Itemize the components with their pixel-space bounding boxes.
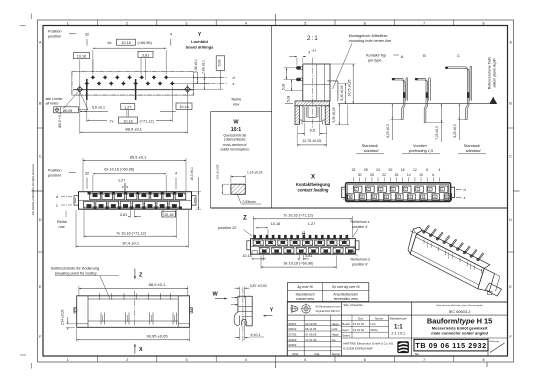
sheet number cell: [488, 338, 505, 356]
svg-text:all holes: all holes: [46, 101, 59, 105]
W area callout 0,93mm2: [237, 194, 261, 205]
svg-text:Blatt/page: Blatt/page: [490, 340, 501, 343]
2:1 right dims 8,35 and 24,75: [330, 64, 356, 125]
svg-text:C: C: [457, 53, 460, 58]
svg-text:8: 8: [483, 358, 485, 362]
svg-text:3: 3: [186, 21, 188, 25]
svg-text:solder terminations:: solder terminations:: [220, 148, 250, 152]
svg-text:20: 20: [388, 168, 392, 172]
svg-text:3,87 ±0,03: 3,87 ±0,03: [250, 284, 267, 288]
svg-text:row: row: [233, 103, 239, 107]
svg-text:5,08: 5,08: [281, 84, 285, 91]
svg-text:Name: Name: [375, 316, 383, 320]
svg-text:6x 10,16 (=60,96): 6x 10,16 (=60,96): [104, 168, 135, 172]
HARTING logo: [397, 341, 409, 353]
svg-text:24,75 ±0,05: 24,75 ±0,05: [348, 79, 352, 96]
svg-text:Witze: Witze: [371, 328, 379, 332]
svg-text:Y: Y: [270, 307, 274, 313]
breaking point notch ticks: [100, 291, 177, 327]
Z view dims below: [242, 254, 336, 269]
3D view front face ribs: [424, 239, 482, 273]
svg-text:26: 26: [370, 173, 374, 177]
svg-text:D-32339 ESPELKAMP: D-32339 ESPELKAMP: [343, 347, 372, 351]
svg-text:4: 4: [175, 172, 177, 176]
2:1 upper housing outline: [285, 64, 338, 101]
svg-text:6: 6: [364, 358, 366, 362]
svg-text:22.09.08: 22.09.08: [305, 322, 317, 326]
svg-text:17.01.06: 17.01.06: [305, 338, 317, 342]
svg-text:X: X: [311, 175, 315, 181]
svg-text:C: C: [39, 155, 42, 159]
svg-text:Tab.: Tab.: [415, 352, 420, 356]
svg-text:d: d: [56, 195, 58, 199]
svg-text:4: 4: [439, 168, 441, 172]
svg-text:87,4 ±0,1: 87,4 ±0,1: [122, 240, 139, 245]
svg-text:88,9 ±0,1: 88,9 ±0,1: [149, 282, 166, 287]
2:1 solder pins left: [296, 66, 303, 81]
svg-text:1: 1: [67, 21, 69, 25]
svg-text:32352: 32352: [288, 343, 296, 347]
svg-text:Maßstab/scale: Maßstab/scale: [390, 316, 407, 320]
svg-text:Position: Position: [48, 30, 62, 34]
svg-text:5: 5: [304, 358, 306, 362]
side view W profile: [231, 288, 252, 343]
svg-text:Kontakt-Typ: Kontakt-Typ: [366, 54, 386, 58]
svg-text:32: 32: [85, 172, 89, 176]
svg-text:16,3 ±0,1: 16,3 ±0,1: [190, 167, 194, 181]
svg-text:A: A: [361, 195, 363, 199]
svg-text:Ge.: Ge.: [332, 338, 337, 342]
svg-text:preleading 1,5: preleading 1,5: [408, 149, 434, 153]
svg-text:D: D: [509, 218, 512, 222]
datum plane line: [285, 97, 497, 104]
view top contact cavities row z: [84, 201, 182, 209]
svg-text:Lochbild: Lochbild: [191, 39, 208, 44]
type designation Bauform H 15: [427, 316, 492, 335]
title block outline: [287, 302, 507, 356]
part number box TB 09 06 115 2932: [414, 339, 488, 356]
svg-text:standard: standard: [364, 149, 380, 153]
scale block: [390, 316, 407, 335]
copyright note rotated left margin: [31, 164, 35, 215]
svg-text:7: 7: [423, 21, 425, 25]
view Y position labels: [47, 30, 172, 46]
view Y boxed dim 10,16 left: [74, 53, 93, 87]
svg-text:7x 10,16 (=71,12): 7x 10,16 (=71,12): [283, 214, 314, 218]
view arrow W: [213, 291, 228, 299]
view Y all holes true position callout: [46, 92, 89, 113]
svg-text:0,8 ±0,025: 0,8 ±0,025: [215, 164, 219, 179]
svg-text:13.10.04: 13.10.04: [353, 328, 365, 332]
view Y boxed dim 3,81: [138, 51, 153, 80]
svg-text:A: A: [373, 195, 375, 199]
svg-text:Nicht tolerierte Maße/dim. ohn: Nicht tolerierte Maße/dim. ohne Toleranz…: [436, 304, 483, 307]
2:1 bottom dims 6,5 and 12,75: [297, 123, 327, 147]
svg-text:6x 10,16 (=60,96): 6x 10,16 (=60,96): [284, 261, 315, 265]
svg-text:termination area: termination area: [334, 297, 358, 301]
svg-text:IEC 60603-2: IEC 60603-2: [449, 309, 471, 314]
svg-text:10,16: 10,16: [77, 55, 87, 59]
view top contact cavities row d: [88, 192, 186, 200]
view Y boxed dim 1,27: [121, 104, 135, 117]
svg-text:d: d: [464, 188, 466, 192]
svg-text:06.11.06: 06.11.06: [305, 327, 316, 331]
view X-Z breaking point title: [51, 266, 119, 299]
2:1 centerline: [311, 58, 313, 129]
svg-text:93,95 ±0,05: 93,95 ±0,05: [146, 333, 168, 338]
svg-text:3,81: 3,81: [305, 254, 312, 258]
svg-text:14: 14: [407, 173, 411, 177]
svg-text:3,81: 3,81: [120, 213, 127, 217]
datum plane depth note rotated: [488, 57, 497, 90]
svg-text:position: position: [47, 35, 61, 39]
Z view dims 10,16 and 1,27: [256, 222, 315, 237]
svg-text:Ag over Ni: Ag over Ni: [296, 285, 313, 289]
svg-text:5: 5: [304, 21, 306, 25]
Z view cavities row z: [253, 240, 349, 246]
svg-text:1,27: 1,27: [308, 222, 315, 226]
svg-text:(=60,96): (=60,96): [138, 41, 153, 45]
X view connector face: [342, 183, 455, 202]
pin depth dims 6,25 7,25 6,25: [386, 104, 466, 142]
2:1 dim 3 +0,4: [289, 49, 317, 66]
svg-text:Bauform/type H 15: Bauform/type H 15: [427, 316, 492, 325]
svg-text:3,81: 3,81: [142, 53, 149, 57]
svg-text:2:1: 2:1: [307, 36, 319, 42]
X contact loading label: [296, 175, 331, 193]
svg-text:5,6 ±0,1: 5,6 ±0,1: [92, 106, 105, 110]
svg-text:8: 8: [483, 21, 485, 25]
svg-text:Dat.: Dat.: [358, 316, 364, 320]
breaking point dim 2,54: [61, 310, 78, 330]
svg-text:contact area: contact area: [296, 297, 314, 301]
manufacturer address: [343, 342, 394, 351]
svg-text:5,08 ±0,1: 5,08 ±0,1: [194, 59, 198, 73]
W cross-section title: [220, 119, 250, 151]
svg-text:Lötanschlüsse:: Lötanschlüsse:: [224, 138, 247, 142]
svg-text:5,35 ±0,05: 5,35 ±0,05: [332, 107, 336, 122]
svg-text:2: 2: [126, 358, 128, 362]
view top position labels: [47, 168, 177, 189]
view top connector body: [74, 192, 196, 210]
svg-text:2:1 10:1: 2:1 10:1: [391, 332, 405, 336]
svg-text:18: 18: [395, 173, 399, 177]
breaking point dim 88,9: [79, 282, 188, 296]
svg-text:07.06.06: 07.06.06: [305, 333, 317, 337]
W dim 0,8: [215, 164, 229, 194]
X view position numbers: [352, 168, 441, 182]
side view W dim 3,87: [235, 284, 267, 298]
svg-text:Dat.: Dat.: [315, 352, 321, 356]
Z view position 32 label: [217, 226, 252, 236]
svg-text:Mod.: Mod.: [292, 352, 299, 356]
pin variant labels: [356, 144, 486, 154]
svg-text:Reihe: Reihe: [232, 98, 242, 102]
view arrow Z: [134, 269, 143, 280]
svg-text:12: 12: [413, 168, 417, 172]
svg-text:Voreiler/: Voreiler/: [413, 144, 428, 148]
2:1 base with hatching: [295, 101, 330, 125]
svg-text:16: 16: [401, 168, 405, 172]
svg-text:datum plane depth: datum plane depth: [493, 58, 497, 87]
svg-text:HARTING Electronics GmbH & Co.: HARTING Electronics GmbH & Co. KG: [343, 342, 394, 346]
svg-text:Standard/: Standard/: [464, 144, 481, 148]
svg-text:10,16: 10,16: [123, 119, 133, 123]
pin-type label: [366, 54, 399, 63]
svg-text:7x 10,16 (=71,12): 7x 10,16 (=71,12): [116, 231, 147, 235]
X view contact cells row d: [353, 186, 448, 192]
svg-text:Steckbereich: Steckbereich: [295, 292, 314, 296]
view top dim 7x 10,16: [84, 210, 177, 238]
svg-text:z: z: [464, 196, 466, 200]
svg-text:10,16: 10,16: [242, 254, 252, 258]
svg-text:1:1: 1:1: [394, 324, 403, 330]
svg-text:A: A: [446, 195, 448, 199]
svg-text:1: 1: [67, 358, 69, 362]
svg-text:Name: Name: [332, 352, 341, 356]
standards cell IEC: [436, 304, 483, 314]
svg-text:6,25 ±0,3: 6,25 ±0,3: [453, 124, 457, 137]
side view W dim 6: [235, 321, 265, 340]
view top dim 3,81 and 10,16 below: [120, 210, 176, 218]
Z view solder pins row: [252, 235, 348, 240]
svg-text:35351: 35351: [288, 322, 296, 326]
view top dim 85,5: [83, 154, 186, 191]
svg-text:Teile, Charachte.: Teile, Charachte.: [343, 303, 363, 307]
svg-text:Bearb.: Bearb.: [342, 322, 351, 326]
svg-text:10: 10: [419, 173, 423, 177]
view Y thick extension bars: [87, 79, 136, 100]
svg-text:32: 32: [352, 168, 356, 172]
svg-text:12,75 ±0,05: 12,75 ±0,05: [302, 139, 321, 143]
Z view dim 7x 10,16: [253, 214, 352, 237]
svg-text:Hage.: Hage.: [332, 322, 340, 326]
breaking point dim 93,95: [77, 329, 190, 342]
section divider lines: [211, 26, 508, 209]
svg-text:7,86 ±0,1: 7,86 ±0,1: [201, 60, 205, 74]
svg-text:Leh.: Leh.: [371, 322, 377, 326]
pin A standard: [392, 78, 408, 120]
view Y board drillings title: [186, 32, 215, 50]
2:1 left dims 5,08: [281, 68, 296, 103]
svg-text:5,08: 5,08: [218, 60, 222, 67]
view Y dim 6x 10,16 =60,96: [93, 39, 166, 74]
svg-text:24: 24: [376, 168, 380, 172]
svg-text:10,16: 10,16: [164, 213, 174, 217]
X view contact cells row z: [347, 194, 452, 200]
svg-text:C: C: [509, 155, 512, 159]
pin C standard long: [445, 66, 472, 119]
X view row labels d z: [456, 188, 466, 200]
svg-text:Sn over Ag over Ni: Sn over Ag over Ni: [332, 285, 360, 289]
view Y mounting holes: [77, 85, 190, 94]
svg-text:Reihe: Reihe: [57, 220, 67, 224]
svg-text:male connector solder angled: male connector solder angled: [431, 331, 488, 336]
Z view connector body: [247, 239, 359, 255]
revision table: [287, 315, 341, 356]
Z view cavities row d: [259, 248, 355, 254]
svg-text:A: A: [410, 195, 412, 199]
svg-text:All Dimensions in mm: All Dimensions in mm: [316, 304, 341, 308]
drawing sheet border frame: [38, 20, 514, 362]
svg-text:Z: Z: [243, 215, 247, 221]
svg-text:W: W: [233, 119, 239, 125]
svg-text:contact loading: contact loading: [298, 187, 329, 192]
svg-text:1,27: 1,27: [124, 106, 131, 110]
svg-text:z: z: [233, 82, 235, 86]
svg-text:Kontaktbelegung: Kontaktbelegung: [296, 182, 331, 187]
svg-text:TB 09 06 115 2932: TB 09 06 115 2932: [415, 341, 486, 350]
view Y hole pattern row d: [91, 75, 169, 80]
svg-text:d: d: [233, 76, 235, 80]
view Y section line through mounting holes: [73, 89, 194, 91]
svg-text:Stand.: Stand.: [342, 334, 351, 338]
svg-text:+0,4: +0,4: [311, 49, 317, 53]
view Y hole diameter callout: [58, 91, 79, 128]
view arrow Y small: [263, 307, 274, 316]
svg-text:(=71,12): (=71,12): [140, 119, 155, 123]
svg-text:position 8: position 8: [351, 262, 367, 266]
3D view pins: [423, 225, 484, 260]
svg-text:z: z: [56, 203, 58, 207]
view Y boxed dim 10,16 right: [160, 103, 192, 112]
svg-text:cross-section of: cross-section of: [223, 143, 248, 147]
view top row labels d z: [56, 195, 72, 229]
svg-text:7x: 7x: [110, 119, 114, 123]
svg-text:88,9 ±0,1: 88,9 ±0,1: [125, 127, 142, 132]
svg-text:position 32: position 32: [217, 226, 237, 230]
svg-text:6x: 6x: [108, 41, 112, 45]
svg-text:6,5: 6,5: [310, 128, 315, 132]
svg-text:8: 8: [426, 168, 428, 172]
pin B preleading: [415, 78, 431, 123]
svg-text:board drillings: board drillings: [186, 45, 215, 50]
svg-text:Gepr.: Gepr.: [342, 328, 349, 332]
view top dim 6x 10,16: [93, 168, 166, 191]
svg-text:6: 6: [432, 173, 434, 177]
svg-text:A: A: [434, 195, 436, 199]
projection symbol box: [290, 304, 341, 314]
view top dim 16,3 right: [190, 167, 201, 209]
svg-text:Position: Position: [48, 168, 62, 172]
svg-text:A: A: [385, 195, 387, 199]
svg-text:A: A: [401, 54, 404, 59]
svg-text:standard: standard: [466, 149, 482, 153]
svg-text:4: 4: [245, 21, 247, 25]
svg-text:B: B: [349, 195, 351, 199]
svg-text:33705: 33705: [288, 333, 296, 337]
svg-text:row: row: [59, 225, 65, 229]
view Y right vertical dims: [166, 56, 225, 90]
svg-text:A: A: [422, 195, 424, 199]
svg-text:32: 32: [85, 33, 89, 37]
svg-text:10,16: 10,16: [271, 222, 281, 226]
view Y row centerlines d and z: [194, 76, 242, 107]
svg-text:13.10.04: 13.10.04: [353, 322, 365, 326]
svg-text:Hage.: Hage.: [332, 333, 340, 337]
svg-text:position 4: position 4: [351, 225, 367, 229]
view Y pcb outline dash-dot: [72, 71, 194, 95]
svg-text:0,93mm²: 0,93mm²: [243, 200, 257, 204]
svg-text:B: B: [423, 53, 426, 58]
svg-text:2: 2: [126, 21, 128, 25]
svg-text:A: A: [397, 195, 399, 199]
svg-text:position: position: [47, 173, 61, 177]
svg-text:3: 3: [186, 358, 188, 362]
svg-text:10:1: 10:1: [231, 127, 241, 133]
plating table Ag/Ni: [287, 283, 368, 302]
svg-text:6 ±0,1: 6 ±0,1: [251, 333, 261, 337]
view Y dim 5,6: [80, 106, 108, 113]
svg-text:Reihe/row d: Reihe/row d: [351, 257, 370, 261]
svg-text:Sollbruchstelle für Kodierung: Sollbruchstelle für Kodierung: [51, 266, 100, 270]
svg-text:4: 4: [170, 33, 172, 37]
svg-text:Anschlußbereich: Anschlußbereich: [333, 292, 358, 296]
svg-text:X: X: [139, 347, 143, 353]
svg-text:Montageloch-Mittellinie: Montageloch-Mittellinie: [349, 34, 388, 38]
view Y hole pattern row z: [84, 81, 174, 86]
svg-text:pin-type: pin-type: [367, 59, 382, 63]
svg-text:33329: 33329: [288, 338, 296, 342]
svg-text:Reihe/row z: Reihe/row z: [351, 220, 370, 224]
svg-text:Alle Rechte vorbehalten All r: Alle Rechte vorbehalten All rights reser…: [31, 164, 35, 215]
svg-text:D: D: [39, 218, 42, 222]
view top dim 87,4: [76, 210, 188, 248]
svg-text:Ø0,05: Ø0,05: [63, 109, 72, 113]
svg-text:28: 28: [364, 168, 368, 172]
svg-text:6,25 ±0,3: 6,25 ±0,3: [386, 124, 390, 137]
svg-text:30: 30: [358, 173, 362, 177]
svg-text:mounting hole center-line: mounting hole center-line: [349, 39, 392, 43]
view Y dim 88,9: [80, 94, 188, 134]
W dim 1,16: [231, 170, 263, 183]
svg-text:2,54 ±0,05: 2,54 ±0,05: [61, 310, 65, 326]
svg-text:22: 22: [382, 173, 386, 177]
svg-text:7,25 ±0,3: 7,25 ±0,3: [435, 126, 439, 139]
svg-text:8,35 ±0,05: 8,35 ±0,05: [340, 85, 344, 100]
svg-text:1,16 ±0,02: 1,16 ±0,02: [247, 170, 263, 174]
W cross-section hatched bar: [231, 184, 245, 194]
view Y dim 7x 10,16 =71,12: [87, 87, 173, 123]
svg-text:breaking point for coding: breaking point for coding: [55, 271, 97, 275]
view top dim 1,27: [118, 178, 128, 191]
svg-text:Ø0,9 +0,1: Ø0,9 +0,1: [58, 112, 62, 128]
svg-text:6: 6: [364, 21, 366, 25]
svg-text:Referenzebene Tiefe: Referenzebene Tiefe: [488, 57, 492, 90]
svg-text:85,5 ±0,1: 85,5 ±0,1: [130, 154, 147, 159]
pin type labels A B C: [401, 53, 460, 59]
svg-text:Original Size DIN A 3: Original Size DIN A 3: [316, 309, 341, 313]
svg-text:34032: 34032: [288, 327, 296, 331]
svg-text:7: 7: [423, 358, 425, 362]
svg-text:1,27: 1,27: [118, 178, 125, 182]
svg-text:5,08: 5,08: [286, 96, 290, 103]
svg-text:Standard/: Standard/: [362, 144, 379, 148]
svg-text:Lehf.: Lehf.: [332, 327, 339, 331]
svg-text:3: 3: [308, 50, 310, 54]
svg-text:4: 4: [245, 358, 247, 362]
svg-text:10,16: 10,16: [121, 41, 131, 45]
Z view row labels right: [351, 220, 370, 266]
3D oblique connector view: [408, 227, 502, 296]
svg-text:W: W: [213, 291, 219, 297]
breaking point body profile: [74, 296, 192, 328]
view arrow X: [134, 344, 143, 354]
approval block: [341, 303, 388, 338]
mounting hole center-line note: [333, 34, 392, 89]
